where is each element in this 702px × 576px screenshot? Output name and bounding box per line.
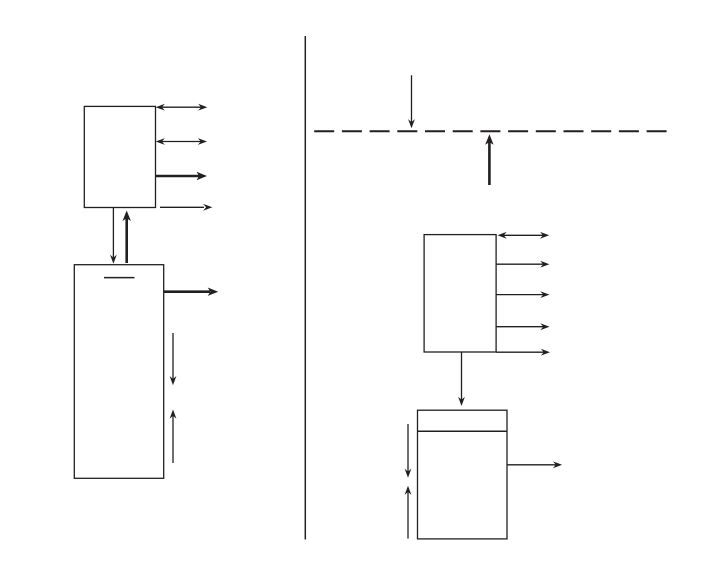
- bidirectional arrow A1 (top, from B1 right edge): [156, 104, 208, 111]
- output arrow C4 from B3: [496, 323, 549, 330]
- box B4 (bottom-right block): [418, 410, 508, 539]
- down arrow onto dashed line: [408, 75, 415, 128]
- box B2 (tall lower-left block): [74, 265, 163, 479]
- output arrow C5 at B3 bottom level: [496, 349, 550, 356]
- thick output arrow from B2 right edge: [164, 288, 219, 296]
- output arrow C2 from B3: [496, 261, 549, 268]
- connector arrow from B3 down to B4: [458, 352, 465, 406]
- down arrow from B1 to B2: [110, 208, 117, 264]
- bidirectional arrow A2 (from B1 right edge): [156, 138, 207, 145]
- thick up arrow from B2 to B1: [123, 211, 131, 264]
- dashed boundary line: [314, 130, 666, 132]
- output arrow from B4 right edge: [507, 461, 562, 468]
- header line inside B4: [418, 430, 508, 432]
- up arrow left of B4: [405, 486, 412, 539]
- down arrow left of B4: [405, 424, 412, 478]
- short label line inside B2: [104, 277, 135, 279]
- output arrow C3 from B3: [496, 291, 549, 298]
- output arrow A4 (at B1 bottom level): [160, 204, 212, 211]
- box B3 (middle-right block): [424, 235, 496, 352]
- bidirectional arrow C1 (top, from B3 right edge): [498, 232, 550, 239]
- up arrow right of B2: [170, 410, 177, 464]
- thick up arrow from below dashed line: [485, 134, 493, 185]
- down arrow right of B2: [170, 333, 177, 385]
- box B1 (upper-left block): [84, 106, 155, 207]
- thick output arrow A3 (from B1 right edge): [156, 172, 208, 180]
- vertical divider line: [304, 36, 306, 540]
